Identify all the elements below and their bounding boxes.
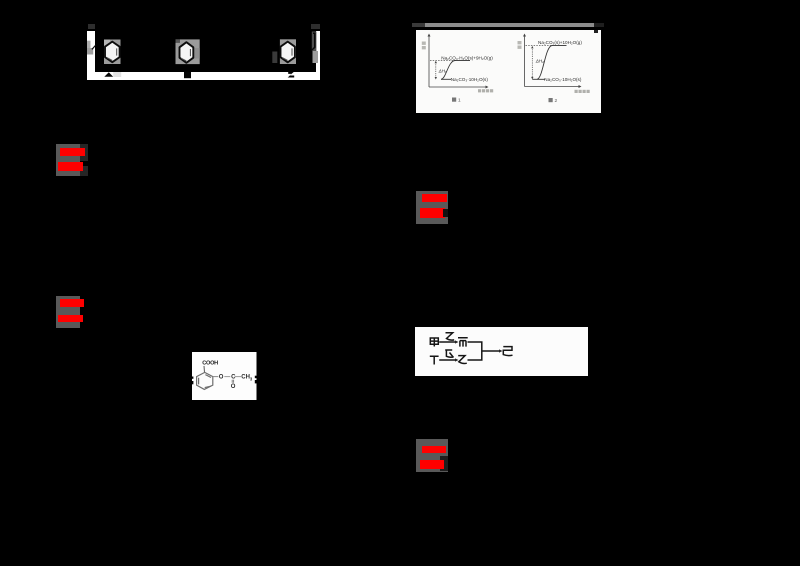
gray patch right strip	[313, 51, 319, 63]
energy diagrams image	[416, 30, 601, 113]
white bottom strip	[87, 72, 320, 80]
wu above arrow2	[445, 350, 453, 358]
bond O-C	[224, 376, 230, 378]
graph 2 lower level + curve	[532, 78, 545, 80]
svg-text:Na₂CO₃·10H₂O(s): Na₂CO₃·10H₂O(s)	[450, 77, 488, 82]
jia glyph	[430, 338, 438, 347]
graph 1 caption	[452, 97, 456, 101]
svg-text:1: 1	[458, 97, 461, 103]
svg-text:O: O	[231, 384, 236, 390]
black bracket glyph right	[311, 33, 316, 51]
graph 1 x label	[478, 89, 493, 92]
red answer block 2	[56, 296, 80, 328]
graph 2 x label	[574, 89, 589, 92]
C=O double bond	[231, 380, 233, 383]
graph 2 upper dashed level	[525, 44, 553, 46]
black diagonal bond mark on left strip	[92, 45, 97, 50]
gray column behind bracket	[312, 32, 317, 52]
white right strip	[316, 31, 320, 80]
arrow to ji	[482, 350, 501, 352]
white left strip	[87, 31, 95, 80]
black bond bar below ring2	[184, 72, 191, 78]
svg-text:O: O	[219, 375, 224, 381]
gray patch on left strip	[87, 41, 91, 49]
svg-text:COOH: COOH	[202, 361, 218, 367]
benzene ring 1 group	[104, 40, 121, 65]
ding glyph	[430, 356, 439, 364]
graph 2 dH arrow	[531, 47, 533, 78]
edge glyph bits	[192, 377, 193, 379]
black mark below ring3	[288, 72, 295, 78]
benzene ring 2 group	[176, 39, 200, 64]
ji glyph	[503, 347, 512, 356]
svg-text:2: 2	[554, 98, 557, 104]
svg-text:Na₂CO₃(s)+10H₂O(g): Na₂CO₃(s)+10H₂O(g)	[538, 39, 582, 44]
yi above arrow1	[446, 333, 455, 340]
bracket	[468, 342, 482, 360]
svg-text:ΔH₂: ΔH₂	[534, 58, 543, 63]
flowchart image	[415, 327, 588, 376]
arrow1	[439, 341, 456, 343]
arrow2	[439, 359, 456, 361]
aspirin structure image	[192, 352, 257, 400]
graph 1 y label	[421, 41, 425, 44]
light gray tail	[113, 72, 121, 77]
yi2 glyph	[458, 356, 467, 364]
bing glyph	[458, 338, 468, 347]
red answer block 3	[416, 191, 448, 224]
top-left structures image group	[80, 15, 330, 85]
red answer block 4	[416, 439, 448, 472]
benzene ring 3 group	[272, 39, 296, 64]
bond ring to COOH	[203, 366, 206, 373]
dark cap left	[88, 24, 95, 29]
dark cap right	[311, 24, 320, 29]
bond ring to O	[213, 376, 219, 378]
black triangle below ring1	[104, 72, 113, 77]
graph 2 axes	[524, 36, 579, 87]
bond C-CH3	[235, 376, 241, 378]
graph 1 lower level + curve	[441, 78, 451, 80]
graph 1 dH arrow	[434, 62, 436, 78]
svg-text:Na₂CO₃·10H₂O(s): Na₂CO₃·10H₂O(s)	[544, 77, 582, 82]
graph 1 upper dashed level	[430, 59, 456, 61]
gray scroll bar above energy image	[412, 23, 604, 28]
svg-text:Na₂CO₃·H₂O(s)+9H₂O(g): Na₂CO₃·H₂O(s)+9H₂O(g)	[441, 55, 493, 60]
red answer block 1	[56, 144, 80, 176]
graph 2 caption	[548, 98, 552, 102]
graph 2 y label	[517, 41, 521, 44]
svg-text:CH: CH	[241, 375, 250, 381]
benzene ring	[197, 372, 213, 389]
graph 1 axes	[429, 36, 486, 87]
